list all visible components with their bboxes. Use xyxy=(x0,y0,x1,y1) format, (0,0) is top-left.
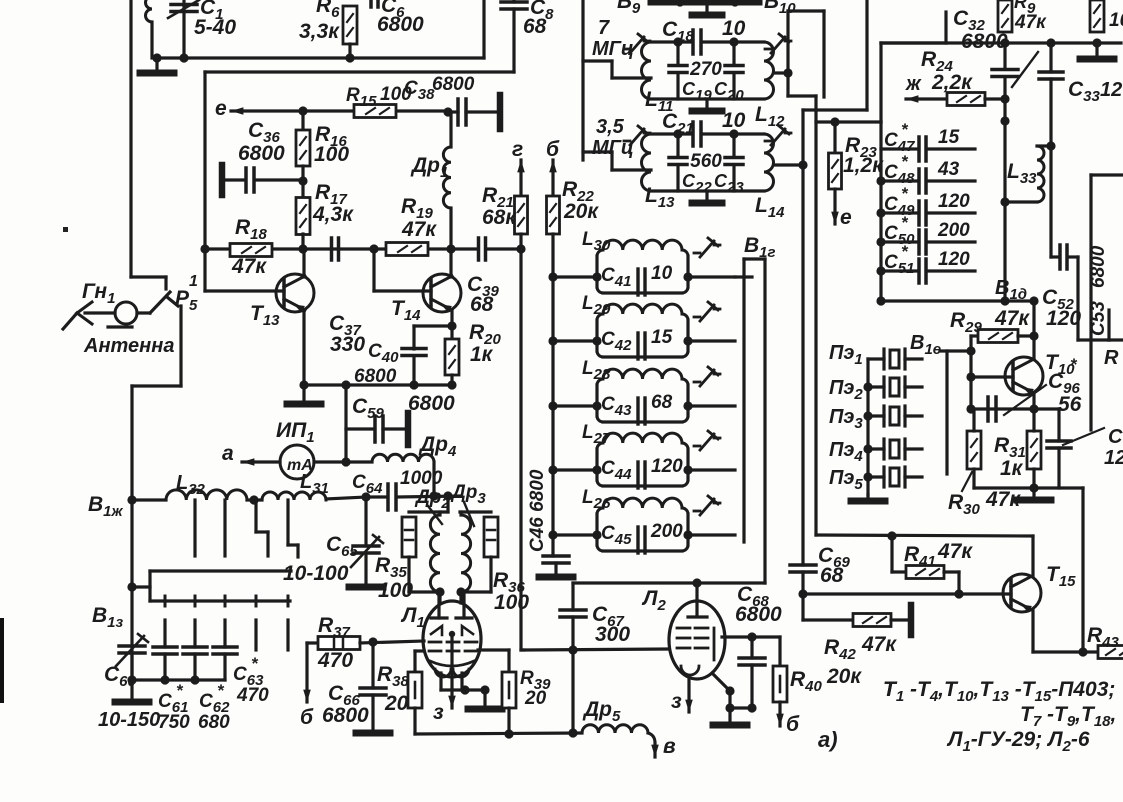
svg-text:a: a xyxy=(222,442,234,465)
svg-text:6800: 6800 xyxy=(1088,245,1109,288)
svg-text:10: 10 xyxy=(651,263,673,284)
svg-text:56: 56 xyxy=(1058,393,1082,416)
svg-text:6800: 6800 xyxy=(377,13,424,36)
svg-text:а): а) xyxy=(818,727,838,752)
svg-text:в: в xyxy=(663,735,676,758)
svg-text:e: e xyxy=(215,97,227,120)
svg-text:68: 68 xyxy=(820,564,844,587)
svg-text:1к: 1к xyxy=(1000,457,1024,480)
svg-text:1: 1 xyxy=(189,273,198,290)
svg-text:300: 300 xyxy=(595,623,630,646)
svg-text:10: 10 xyxy=(722,17,746,40)
svg-text:200: 200 xyxy=(650,521,683,542)
svg-text:3,5: 3,5 xyxy=(596,116,625,138)
svg-text:10: 10 xyxy=(1109,10,1123,31)
svg-text:6800: 6800 xyxy=(408,392,455,415)
svg-text:3,3к: 3,3к xyxy=(299,20,340,43)
svg-text:270: 270 xyxy=(689,59,722,80)
svg-text:330: 330 xyxy=(330,333,365,356)
svg-text:б: б xyxy=(300,706,314,729)
svg-text:б: б xyxy=(786,713,800,736)
svg-text:з: з xyxy=(433,701,444,724)
svg-text:200: 200 xyxy=(937,220,970,241)
svg-text:47к: 47к xyxy=(231,255,267,278)
svg-text:120: 120 xyxy=(938,191,970,212)
svg-text:C: C xyxy=(1108,426,1123,448)
svg-text:4,3к: 4,3к xyxy=(312,203,354,226)
svg-text:12: 12 xyxy=(1104,447,1123,469)
svg-text:МГц: МГц xyxy=(592,38,634,60)
svg-text:e: e xyxy=(840,206,852,229)
svg-text:20: 20 xyxy=(524,688,547,709)
svg-text:ж: ж xyxy=(905,73,922,95)
svg-text:С53: С53 xyxy=(1088,301,1109,336)
svg-text:1к: 1к xyxy=(470,343,494,366)
svg-text:Антенна: Антенна xyxy=(83,335,174,357)
svg-text:6800: 6800 xyxy=(432,74,475,95)
svg-text:б: б xyxy=(546,138,560,161)
svg-text:20к: 20к xyxy=(563,200,599,223)
svg-text:560: 560 xyxy=(690,151,722,172)
svg-text:68к: 68к xyxy=(482,206,517,229)
svg-text:6800: 6800 xyxy=(961,30,1008,53)
svg-text:470: 470 xyxy=(236,685,269,706)
svg-text:120: 120 xyxy=(1046,307,1081,330)
svg-text:2,2к: 2,2к xyxy=(931,71,973,94)
svg-text:68: 68 xyxy=(523,15,547,38)
svg-text:10: 10 xyxy=(722,109,746,132)
svg-text:6800: 6800 xyxy=(322,704,369,727)
svg-text:20: 20 xyxy=(384,692,409,715)
svg-text:5-40: 5-40 xyxy=(194,16,236,39)
svg-text:10-100: 10-100 xyxy=(283,562,349,585)
svg-text:120: 120 xyxy=(938,249,970,270)
svg-text:100: 100 xyxy=(314,143,349,166)
svg-text:15: 15 xyxy=(651,327,673,348)
svg-text:1,2к: 1,2к xyxy=(843,154,884,177)
svg-text:470: 470 xyxy=(317,649,353,672)
svg-text:43: 43 xyxy=(937,159,960,180)
svg-text:47к: 47к xyxy=(401,218,437,241)
svg-text:47к: 47к xyxy=(937,540,973,563)
svg-text:R: R xyxy=(1104,347,1119,369)
svg-text:100: 100 xyxy=(378,579,413,602)
svg-text:10-150: 10-150 xyxy=(98,709,160,731)
svg-text:12: 12 xyxy=(1100,79,1122,101)
svg-text:680: 680 xyxy=(198,712,230,733)
svg-text:100: 100 xyxy=(494,591,529,614)
svg-text:47к: 47к xyxy=(994,307,1030,330)
svg-text:15: 15 xyxy=(938,127,960,148)
svg-text:з: з xyxy=(671,690,682,713)
svg-text:47к: 47к xyxy=(861,633,897,656)
svg-text:6800: 6800 xyxy=(238,142,285,165)
svg-text:1000: 1000 xyxy=(400,468,443,489)
svg-text:47к: 47к xyxy=(1014,12,1047,33)
svg-text:7: 7 xyxy=(598,17,610,39)
svg-text:750: 750 xyxy=(158,712,190,733)
svg-text:С46 6800: С46 6800 xyxy=(527,469,548,552)
svg-text:20к: 20к xyxy=(826,665,862,688)
svg-text:г: г xyxy=(512,138,523,161)
svg-text:68: 68 xyxy=(651,392,673,413)
svg-text:6800: 6800 xyxy=(735,603,782,626)
svg-text:120: 120 xyxy=(651,456,683,477)
svg-text:68: 68 xyxy=(470,293,494,316)
svg-text:47к: 47к xyxy=(985,488,1021,511)
